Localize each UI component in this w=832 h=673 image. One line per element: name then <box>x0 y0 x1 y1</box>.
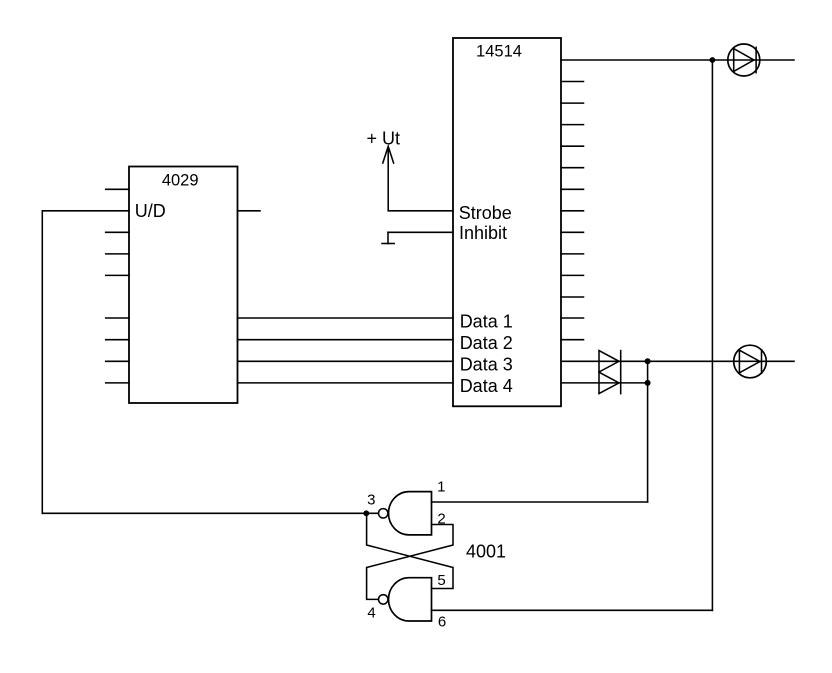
wire right vertical feedback from lamp line to pin6 <box>711 60 713 610</box>
U1 pin stub left row7 <box>106 339 129 341</box>
arrowhead +Ut <box>383 146 394 163</box>
wire U/D input <box>42 210 129 212</box>
U1 pin stub right carry-out <box>238 210 261 212</box>
svg-text:Data 2: Data 2 <box>460 333 513 353</box>
svg-text:Data 1: Data 1 <box>460 312 513 332</box>
U2 output pin stub S1 <box>561 81 584 83</box>
lamp H2 diode triangle <box>739 350 760 373</box>
U1 pin stub left row8 <box>106 360 129 362</box>
wire data4 bus <box>238 382 454 384</box>
lamp H1 circle <box>728 44 760 76</box>
wire feedback bottom horizontal <box>42 512 378 514</box>
svg-text:1: 1 <box>437 478 445 495</box>
U2 output pin stub S7 <box>561 210 584 212</box>
U1 pin stub left row5 <box>106 274 129 276</box>
wire gate G1 output pin3 cross-coupling to pin5 <box>367 513 453 588</box>
svg-text:+ Ut: + Ut <box>367 128 401 148</box>
IC U1 4029 body <box>129 167 238 404</box>
svg-text:4029: 4029 <box>162 171 199 189</box>
wire data3 bus <box>238 360 454 362</box>
IC U2 14514 body <box>453 38 561 406</box>
svg-text:Inhibit: Inhibit <box>459 223 507 243</box>
wire gate G2 input pin6 <box>432 609 713 611</box>
lamp H2 circle <box>734 345 767 378</box>
diode D2 <box>599 372 619 393</box>
wire data1 bus <box>238 317 454 319</box>
svg-text:Strobe: Strobe <box>459 203 512 223</box>
svg-text:U/D: U/D <box>135 201 166 221</box>
wire node A vertical to gate input 1 <box>647 361 649 502</box>
U1 pin stub left row4 <box>106 253 129 255</box>
junction node gate G1 output <box>363 510 369 516</box>
U1 pin stub left row6 <box>106 317 129 319</box>
junction node top right <box>710 57 716 63</box>
lamp H2 cathode bar <box>761 350 763 373</box>
wire feedback left vertical <box>41 211 43 514</box>
junction node data3 <box>645 358 651 364</box>
U2 output pin stub S5 <box>561 167 584 169</box>
diode D1 <box>599 351 619 372</box>
wire S14 output through diode row <box>561 360 794 362</box>
svg-text:4001: 4001 <box>466 542 506 562</box>
diode cathode bar shared <box>620 351 622 394</box>
wire gate G1 input pin2 cross-coupling <box>367 525 453 600</box>
U2 output pin stub S4 <box>561 145 584 147</box>
U2 output pin stub S9 <box>561 253 584 255</box>
junction node data4 <box>645 380 651 386</box>
NOR gate G1 bubble <box>379 509 388 518</box>
U2 output pin stub S11 <box>561 296 584 298</box>
U2 output pin stub S8 <box>561 231 584 233</box>
svg-text:Data 4: Data 4 <box>460 376 513 396</box>
svg-text:Data 3: Data 3 <box>460 355 513 375</box>
wire S0 output to lamp H1 <box>561 59 794 61</box>
NOR gate G2 body <box>389 578 432 621</box>
svg-text:14514: 14514 <box>476 43 522 61</box>
wire +Ut supply vertical with strobe <box>388 148 453 211</box>
U2 output pin stub S6 <box>561 188 584 190</box>
U2 output pin stub S10 <box>561 274 584 276</box>
ground symbol inhibit <box>387 232 389 243</box>
NOR gate G2 bubble <box>379 595 388 604</box>
U2 output pin stub S12 <box>561 317 584 319</box>
svg-text:4: 4 <box>367 604 375 621</box>
svg-text:3: 3 <box>367 491 375 508</box>
svg-text:5: 5 <box>437 572 445 589</box>
wire inhibit <box>388 231 453 233</box>
svg-text:6: 6 <box>438 614 446 631</box>
wire S15 output through diode row <box>561 382 648 384</box>
wire data2 bus <box>238 339 454 341</box>
U1 pin stub left row9 <box>106 382 129 384</box>
U1 pin stub left row3 <box>106 231 129 233</box>
U2 output pin stub S3 <box>561 124 584 126</box>
U2 output pin stub S13 <box>561 339 584 341</box>
lamp H1 cathode bar <box>755 47 757 72</box>
NOR gate G1 body <box>389 492 432 535</box>
U2 output pin stub S2 <box>561 102 584 104</box>
wire gate G1 input pin1 <box>432 501 648 503</box>
svg-text:2: 2 <box>437 511 445 528</box>
lamp H1 diode triangle <box>734 49 754 72</box>
U1 pin stub left row1 <box>106 188 129 190</box>
